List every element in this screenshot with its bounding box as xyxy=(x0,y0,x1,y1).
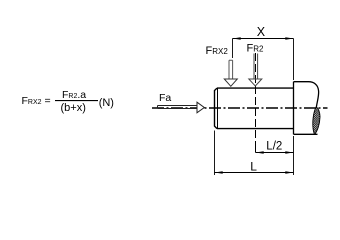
svg-text:(N): (N) xyxy=(99,97,114,109)
FR2 force arrow xyxy=(249,54,262,87)
X dimension xyxy=(233,37,294,80)
svg-text:Fa: Fa xyxy=(159,92,171,104)
svg-text:L/2: L/2 xyxy=(266,141,282,153)
hatched broken section xyxy=(313,107,320,135)
Fa force arrow xyxy=(158,102,205,113)
formula FRX2 = FR2.a/(b+x) (N) xyxy=(22,89,114,114)
collar outline xyxy=(294,82,319,108)
chamfer line xyxy=(217,88,219,129)
shaft body xyxy=(215,88,294,129)
centerline xyxy=(152,107,328,109)
svg-text:X: X xyxy=(257,25,266,39)
svg-text:L: L xyxy=(250,159,257,173)
fraction bar xyxy=(55,100,98,102)
FRX2 force arrow xyxy=(229,60,233,79)
L dimension xyxy=(215,131,294,176)
svg-text:FR2: FR2 xyxy=(247,42,265,54)
svg-text:(b+x): (b+x) xyxy=(61,102,86,114)
shoulder xyxy=(293,82,295,135)
collar bottom edge xyxy=(294,133,318,135)
L/2 dimension xyxy=(256,136,294,175)
svg-text:FRX2: FRX2 xyxy=(206,45,229,57)
FR2 line of action (dashed) xyxy=(255,53,257,144)
